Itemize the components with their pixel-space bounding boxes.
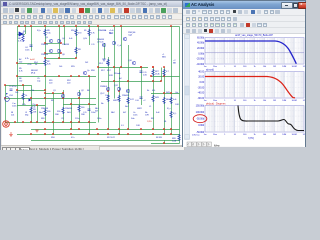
svg-text:Q-Di: Q-Di: [83, 38, 88, 40]
junction: [44, 92, 46, 94]
left window title bar: [1, 1, 182, 8]
svg-text:5u6: 5u6: [32, 107, 36, 109]
resistor R19: [118, 95, 120, 102]
junction: [30, 97, 32, 99]
svg-text:100: 100: [243, 100, 247, 102]
svg-text:B+: B+: [147, 90, 150, 92]
wire v-main: [98, 27, 100, 123]
svg-text:R_b: R_b: [37, 30, 41, 32]
svg-text:10k: 10k: [263, 100, 267, 102]
junction: [63, 25, 65, 27]
junction: [78, 128, 80, 130]
svg-text:Q4: Q4: [62, 38, 66, 40]
transistor Q13: [126, 89, 129, 92]
wire right rail: [179, 27, 181, 135]
svg-text:Ib2: Ib2: [119, 78, 123, 80]
svg-text:2N5098: 2N5098: [62, 44, 70, 46]
svg-text:1k: 1k: [253, 66, 256, 68]
svg-text:1M: 1M: [273, 66, 276, 68]
svg-text:Q6: Q6: [62, 54, 66, 56]
svg-text:Cqel: Cqel: [128, 35, 133, 37]
svg-text:330: 330: [47, 111, 51, 113]
junction: [152, 80, 154, 82]
svg-text:R43: R43: [155, 97, 159, 99]
svg-text:RL: RL: [164, 121, 167, 123]
ground mid: [35, 130, 39, 132]
junction: [170, 92, 172, 94]
wire v-c7: [141, 68, 143, 106]
schematic canvas: [2, 25, 183, 145]
svg-text:10k: 10k: [263, 66, 267, 68]
svg-text:100n: 100n: [25, 50, 30, 52]
junction: [70, 103, 72, 105]
junction: [44, 97, 46, 99]
svg-text:R3: R3: [78, 49, 81, 51]
transistor Qx: [83, 71, 86, 74]
wire v-gnd: [104, 43, 106, 59]
wire v-d1: [25, 27, 27, 35]
junction: [16, 89, 18, 91]
svg-text:4.7k: 4.7k: [91, 33, 96, 35]
svg-text:Mea: Mea: [214, 144, 220, 147]
schematic tab bar: [1, 145, 182, 152]
wire net103: [63, 104, 96, 106]
junction: [163, 133, 165, 135]
junction: [30, 121, 32, 123]
svg-text:100n: 100n: [97, 118, 102, 120]
svg-text:R1: R1: [84, 30, 87, 32]
left scrollbar: [185, 34, 190, 140]
wire mirror bases 1: [45, 43, 61, 45]
svg-text:100.00d: 100.00d: [196, 110, 205, 114]
svg-text:470: 470: [78, 33, 82, 35]
wire v-q2: [63, 90, 65, 123]
svg-text:Q3: Q3: [45, 37, 49, 39]
wire vas net: [98, 67, 148, 69]
svg-text:1,28 t: 1,28 t: [147, 120, 152, 123]
svg-text:Q2: Q2: [81, 90, 85, 92]
AC Analysis window: [182, 0, 306, 147]
VG1 arrow: [6, 93, 8, 95]
svg-text:4.7: 4.7: [166, 71, 170, 73]
svg-text:62R: 62R: [109, 75, 113, 77]
svg-text:910mA: 910mA: [114, 72, 121, 75]
wire fb net: [17, 90, 45, 92]
svg-text:R17: R17: [107, 70, 111, 72]
phase x labels: [204, 134, 306, 136]
junction: [150, 75, 152, 77]
svg-text:10M: 10M: [282, 134, 286, 136]
wire D1 anode: [17, 34, 25, 36]
svg-text:10R: 10R: [136, 125, 140, 127]
wire v-n3: [79, 90, 81, 123]
svg-text:10m: 10m: [213, 134, 217, 136]
junction: [52, 92, 54, 94]
svg-text:0.1: 0.1: [121, 125, 125, 127]
capacitor C3: [88, 109, 91, 110]
phase trace black: [238, 106, 304, 131]
svg-text:(R.4): (R.4): [31, 73, 36, 75]
resistor Rg: [30, 107, 32, 114]
svg-text:2N5088: 2N5088: [65, 108, 73, 110]
transistor Q1: [61, 94, 64, 97]
junction: [36, 104, 38, 106]
svg-text:1G: 1G: [303, 134, 305, 136]
mag y labels: [198, 69, 205, 100]
capacitor C8: [140, 97, 143, 98]
left toolbar row 1: [1, 7, 182, 14]
wire v-fb: [45, 76, 47, 123]
phase y labels: [196, 103, 205, 133]
wire v-mir1: [59, 27, 61, 59]
svg-text:100n: 100n: [12, 106, 17, 108]
AC toolbar row 2: [183, 16, 305, 22]
svg-text:100n: 100n: [133, 115, 138, 117]
junction: [75, 57, 77, 59]
svg-text:10M: 10M: [282, 66, 286, 68]
wire v-n2: [71, 99, 73, 130]
resistor R8: [22, 35, 24, 42]
wire v-drv: [53, 93, 55, 135]
svg-text:150.00d: 150.00d: [196, 103, 205, 107]
svg-text:R_z: R_z: [167, 108, 170, 110]
svg-text:ph(out) : Degrees: ph(out) : Degrees: [206, 102, 226, 105]
svg-text:4u5: 4u5: [69, 38, 73, 40]
junction: [113, 66, 115, 68]
wire mirror tail: [45, 58, 76, 60]
junction: [140, 133, 142, 135]
svg-text:-20.00: -20.00: [198, 85, 205, 89]
svg-text:Re4: Re4: [39, 112, 43, 114]
resistor Rin: [22, 93, 24, 100]
AC toolbar row 4: [183, 28, 305, 34]
diode D1: [19, 32, 23, 36]
resistor R5: [107, 59, 109, 66]
resistor R30: [163, 69, 165, 76]
left schematic editor window: [0, 0, 183, 150]
svg-text:220: 220: [67, 83, 71, 85]
svg-text:2N5098: 2N5098: [41, 54, 49, 56]
wire v-r21: [153, 68, 155, 130]
gain y labels: [196, 35, 204, 66]
junction: [163, 128, 165, 130]
junction: [44, 75, 46, 77]
diode D2 (input clamp): [29, 99, 32, 102]
svg-text:0R22: 0R22: [113, 100, 119, 102]
resistor Re1: [44, 109, 46, 116]
svg-text:Out: Out: [175, 91, 179, 94]
junction: [140, 66, 142, 68]
junction: [118, 90, 120, 92]
transistor Q8: [112, 41, 115, 44]
junction: [62, 97, 64, 99]
junction: [44, 57, 46, 59]
junction: [118, 133, 120, 135]
junction: [36, 121, 38, 123]
junction: [107, 90, 109, 92]
wire v-gnd2: [37, 105, 39, 123]
junction: [88, 103, 90, 105]
svg-text:R1.1: R1.1: [99, 63, 104, 65]
annotation ellipse: [193, 115, 207, 123]
svg-text:40.00d: 40.00d: [197, 41, 205, 45]
ground VG1: [9, 132, 13, 137]
transistor Q10: [132, 61, 135, 64]
wire net62: [17, 63, 45, 65]
bottom nav buttons: [187, 142, 211, 147]
junction: [70, 128, 72, 130]
junction: [170, 128, 172, 130]
junction: [44, 25, 46, 27]
svg-text:R17: R17: [101, 70, 105, 72]
svg-text:1k: 1k: [25, 95, 28, 97]
svg-text:-20.00d: -20.00d: [196, 57, 204, 61]
svg-text:100M: 100M: [292, 134, 297, 136]
svg-text:Re5: Re5: [67, 112, 71, 114]
junction: [44, 121, 46, 123]
capacitor C1: [10, 89, 13, 90]
junction: [78, 97, 80, 99]
junction: [75, 25, 77, 27]
wire net75r: [151, 76, 180, 78]
junction: [70, 133, 72, 135]
transistor Q2: [77, 92, 80, 95]
junction: [163, 75, 165, 77]
wire bias net: [101, 81, 161, 83]
junction: [16, 62, 18, 64]
svg-text:0.00d: 0.00d: [198, 51, 204, 55]
capacitor C4: [30, 45, 33, 46]
svg-text:22k: 22k: [11, 115, 15, 117]
resistor R10: [75, 29, 77, 36]
transistor Q3: [49, 39, 52, 42]
junction: [127, 80, 129, 82]
junction: [163, 142, 165, 144]
svg-text:25.4k: 25.4k: [155, 74, 161, 76]
wire lower rail A: [5, 122, 96, 124]
svg-text:20.00: 20.00: [198, 75, 204, 79]
junction: [58, 25, 60, 27]
svg-text:C_al: C_al: [117, 45, 122, 47]
svg-text:Rb2: Rb2: [111, 112, 115, 114]
junction: [118, 128, 120, 130]
junction: [30, 133, 32, 135]
svg-text:C1 470n: C1 470n: [9, 86, 17, 88]
svg-text:220: 220: [49, 83, 53, 85]
svg-text:0R22: 0R22: [137, 108, 143, 110]
svg-text:2N5088: 2N5088: [122, 95, 130, 97]
svg-text:10: 10: [234, 134, 237, 136]
svg-text:R17 0.22: R17 0.22: [107, 137, 116, 139]
svg-text:Re: Re: [101, 103, 104, 105]
svg-text:1: 1: [224, 66, 226, 68]
junction: [44, 52, 46, 54]
svg-text:R20: R20: [41, 118, 45, 120]
junction: [152, 128, 154, 130]
junction: [97, 66, 99, 68]
junction: [96, 128, 98, 130]
junction: [160, 80, 162, 82]
junction: [22, 84, 24, 86]
resistor R44: [163, 97, 165, 104]
junction: [152, 133, 154, 135]
wire net104L: [17, 105, 45, 107]
wire v-q8: [114, 27, 116, 99]
svg-text:10R: 10R: [145, 115, 149, 117]
wire bottom out: [151, 143, 180, 145]
junction: [97, 133, 99, 135]
wire v-c4: [31, 27, 33, 52]
svg-text:Zob: Zob: [131, 118, 135, 120]
svg-text:1k8: 1k8: [33, 112, 37, 114]
wire v-r19: [119, 68, 121, 135]
svg-text:1m: 1m: [204, 134, 207, 136]
junction: [88, 75, 90, 77]
svg-text:100M: 100M: [292, 100, 297, 102]
svg-text:C-D: C-D: [91, 44, 95, 46]
junction: [88, 25, 90, 27]
svg-text:5k: 5k: [35, 64, 38, 66]
wire mirror bases 2: [45, 53, 61, 55]
junction: [22, 121, 24, 123]
resistor R26: [107, 95, 109, 102]
svg-text:20.00d: 20.00d: [197, 46, 205, 50]
svg-text:1k0: 1k0: [59, 66, 63, 68]
wire v-rin: [23, 85, 25, 105]
junction: [30, 25, 32, 27]
svg-text:Im M: Im M: [30, 59, 35, 61]
svg-text:10R: 10R: [175, 104, 179, 106]
svg-text:1k0: 1k0: [15, 92, 19, 94]
ammeter AM1: [5, 122, 8, 127]
svg-text:560: 560: [81, 107, 85, 109]
resistor R2: [44, 59, 46, 66]
junction: [113, 25, 115, 27]
wire lower rail B: [31, 129, 180, 131]
junction: [52, 133, 54, 135]
wire bottom aux: [31, 140, 180, 142]
svg-text:a(mod): a(mod): [206, 68, 214, 71]
svg-text:R15: R15: [71, 66, 75, 68]
junction: [62, 92, 64, 94]
wire v-r1: [89, 27, 91, 46]
wire v-zobel: [164, 140, 166, 144]
transistor Q11: [106, 87, 109, 90]
junction: [44, 42, 46, 44]
wire v-r30: [164, 68, 166, 135]
svg-text:amP_vas_stage_50170_Bode-DP: amP_vas_stage_50170_Bode-DP: [235, 34, 273, 37]
svg-text:10: 10: [234, 100, 237, 102]
annotation circle on AM1: [3, 121, 10, 127]
junction: [58, 75, 60, 77]
junction: [88, 133, 90, 135]
svg-text:+C: +C: [143, 100, 146, 102]
svg-text:1G: 1G: [303, 100, 305, 102]
svg-text:10k: 10k: [263, 134, 267, 136]
junction: [120, 66, 122, 68]
maximize button: [292, 2, 300, 9]
junction: [52, 121, 54, 123]
svg-text:C+D: C+D: [135, 100, 140, 102]
svg-text:47u: 47u: [71, 137, 75, 139]
svg-text:B_L: B_L: [173, 113, 177, 115]
svg-text:4.7k: 4.7k: [19, 71, 24, 73]
voltage source VG1: [5, 97, 10, 102]
junction: [70, 75, 72, 77]
mag x labels: [204, 100, 306, 102]
svg-text:4u5: 4u5: [173, 99, 177, 101]
wire v-in2: [31, 85, 33, 123]
svg-text:1k: 1k: [253, 100, 256, 102]
junction: [44, 128, 46, 130]
svg-text:1M: 1M: [273, 134, 276, 136]
svg-text:Q7 4u5: Q7 4u5: [97, 42, 104, 44]
resistor RL: [170, 111, 172, 118]
svg-text:1.5k: 1.5k: [47, 33, 52, 35]
junction: [70, 121, 72, 123]
svg-text:+105: +105: [27, 64, 32, 66]
AC toolbar row 1: [183, 9, 305, 16]
mag plot frame: [205, 72, 304, 99]
junction: [60, 42, 62, 44]
junction: [152, 66, 154, 68]
resistor Re3: [78, 105, 80, 112]
wire V- rail: [17, 134, 180, 136]
wire v-mir2: [64, 27, 66, 46]
junction: [24, 25, 26, 27]
close button: [298, 2, 307, 9]
svg-text:2N3904: 2N3904: [100, 86, 108, 88]
gain zero axis: [205, 52, 304, 54]
svg-text:330: 330: [57, 111, 61, 113]
resistor R45: [170, 97, 172, 104]
junction: [58, 57, 60, 59]
wire v-n4: [89, 76, 91, 135]
junction: [163, 66, 165, 68]
svg-text:2k2: 2k2: [85, 62, 89, 64]
svg-text:1M: 1M: [273, 100, 276, 102]
wire v-out1: [171, 27, 173, 94]
svg-text:4.7k: 4.7k: [25, 58, 30, 60]
junction: [140, 128, 142, 130]
junction: [163, 92, 165, 94]
wire input rail: [5, 85, 7, 123]
wire net75: [17, 76, 96, 78]
junction: [127, 128, 129, 130]
ground symbol Q7: [102, 59, 106, 61]
junction: [170, 25, 172, 27]
junction: [14, 121, 16, 123]
resistor R3: [75, 47, 77, 54]
transistor Q12: [117, 87, 120, 90]
svg-text:4.7k: 4.7k: [18, 41, 23, 43]
junction: [4, 97, 6, 99]
svg-text:10p: 10p: [37, 81, 41, 83]
resistor R9: [44, 29, 46, 36]
svg-text:Q1: Q1: [53, 90, 57, 92]
junction: [4, 84, 6, 86]
transistor Q6: [57, 49, 60, 52]
svg-text:-50.00d: -50.00d: [196, 117, 204, 121]
junction: [16, 75, 18, 77]
resistor R1: [88, 29, 90, 36]
svg-text:B2.5W: B2.5W: [156, 137, 163, 139]
svg-text:2N5088A: 2N5088A: [98, 29, 107, 32]
svg-text:2.2A: 2.2A: [172, 140, 177, 143]
AC plot client area: [183, 34, 305, 147]
phase plot frame: [205, 106, 304, 133]
wire v-r7: [161, 68, 163, 82]
